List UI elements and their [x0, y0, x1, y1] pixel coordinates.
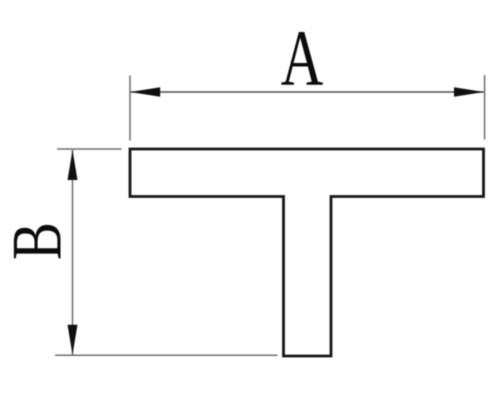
dimension line A — [131, 91, 484, 93]
extension line A right — [484, 75, 486, 140]
T-profile outline — [130, 149, 484, 356]
extension line B bottom — [55, 354, 278, 356]
extension line B top — [57, 148, 122, 150]
arrowhead A left — [130, 87, 160, 97]
extension line A left — [129, 76, 131, 141]
arrowhead B bottom — [68, 325, 78, 355]
arrowhead B top — [68, 150, 78, 180]
dimension line B — [72, 150, 74, 355]
svg-text:B: B — [0, 222, 76, 260]
arrowhead A right — [454, 87, 484, 97]
svg-text:A: A — [281, 15, 323, 102]
